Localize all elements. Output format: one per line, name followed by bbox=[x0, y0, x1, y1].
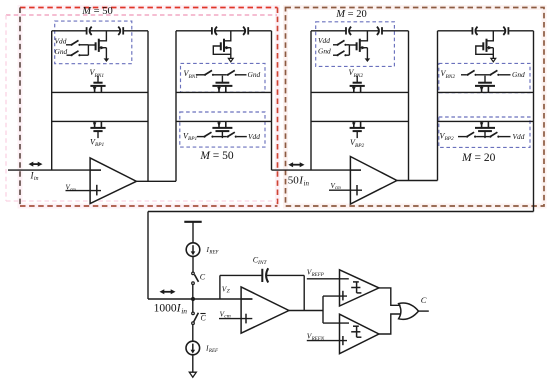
wire U1 Vcm lead and plus sign bbox=[66, 185, 102, 196]
svg-text:BN2: BN2 bbox=[353, 73, 363, 79]
label output C bbox=[421, 295, 427, 305]
capacitor C3a (col3 rail left) bbox=[346, 27, 351, 35]
transistor M7 (col3 cell NMOS) bbox=[349, 31, 370, 62]
wire col2 top rail bbox=[176, 30, 272, 32]
wire IREF2 to ground bbox=[192, 355, 194, 373]
plus sign U4 bbox=[342, 291, 344, 301]
wire col2 left vertical bbox=[175, 31, 177, 181]
svg-text:BP2: BP2 bbox=[444, 136, 454, 142]
switch S12 (Vdd select col4) bbox=[489, 132, 510, 138]
switch box B3 (col2 lower, blue dashed) bbox=[180, 112, 265, 147]
wire U1 minus lead inside bbox=[90, 169, 101, 171]
label VBP2 col3 bbox=[350, 138, 365, 149]
hysteresis icon U5 bbox=[351, 326, 361, 337]
svg-text:Gnd: Gnd bbox=[318, 47, 331, 56]
switch S1 (Vdd select, col1) bbox=[66, 40, 81, 46]
transistor M12 (VBP2-switched col4) bbox=[475, 121, 495, 138]
label Vcm U1 bbox=[66, 184, 77, 193]
wire OR output C bbox=[419, 310, 429, 312]
svg-text:C: C bbox=[201, 314, 207, 323]
svg-text:Gnd: Gnd bbox=[512, 70, 525, 79]
wire node to switch Cbar bbox=[192, 299, 194, 312]
label Vcm U2 bbox=[331, 182, 342, 191]
svg-text:BP2: BP2 bbox=[355, 143, 365, 149]
wire U1 output bbox=[136, 180, 176, 182]
svg-text:BN1: BN1 bbox=[94, 73, 104, 79]
svg-text:M = 20: M = 20 bbox=[335, 9, 366, 20]
svg-text:Vdd: Vdd bbox=[318, 36, 330, 45]
op-amp U1 (stage-1 amplifier) bbox=[90, 158, 136, 204]
wire U3 minus lead inside bbox=[241, 298, 252, 300]
transistor M11 (VBN2-switched col4) bbox=[475, 76, 495, 93]
svg-text:BN1: BN1 bbox=[188, 74, 198, 80]
capacitor CINT bbox=[262, 268, 268, 282]
capacitor C3b (col3 rail right) bbox=[377, 27, 382, 35]
svg-text:REFP: REFP bbox=[311, 273, 324, 278]
label switch Cbar bbox=[200, 314, 206, 323]
svg-text:Vdd: Vdd bbox=[55, 36, 67, 45]
switch S2 (Gnd select, col1) bbox=[67, 45, 89, 57]
label 50Iin bbox=[288, 175, 310, 188]
wire col3 top rail bbox=[311, 30, 409, 32]
transistor M8 (VBN2 cascode col3) bbox=[350, 76, 365, 93]
label switch C bbox=[200, 273, 206, 282]
svg-text:INT: INT bbox=[257, 260, 268, 266]
wire switch C to node bbox=[192, 285, 194, 299]
svg-text:C: C bbox=[421, 295, 427, 305]
transistor M9 (VBP2 col3) bbox=[350, 121, 365, 138]
wire VREFN lead to U5 plus input bbox=[307, 340, 347, 342]
label M=50 top bbox=[81, 6, 112, 17]
label VBN1 col2 bbox=[184, 69, 199, 80]
label VREFP bbox=[307, 268, 324, 278]
wire U2 output bbox=[397, 180, 438, 182]
transistor M10 (col4 diode-connected NMOS) bbox=[476, 31, 496, 62]
wire comparator input tap vertical bbox=[322, 296, 324, 323]
label M=20 top bbox=[335, 9, 366, 20]
node VZ junction dot bbox=[191, 297, 195, 301]
wire VREFP lead to U4 minus input bbox=[307, 278, 349, 280]
comparator U5 (lower, with hysteresis) bbox=[340, 314, 379, 354]
label Vdd col4 bbox=[513, 132, 525, 141]
wire col4 left vertical bbox=[437, 31, 439, 181]
wire switch Cbar to IREF2 bbox=[192, 324, 194, 341]
current source IREF1 bbox=[186, 243, 200, 257]
label M=50 bottom bbox=[199, 150, 234, 162]
label Vdd col3 bbox=[318, 36, 330, 45]
stage-1 inner boundary (pink dashed line) bbox=[6, 15, 277, 201]
svg-text:Gnd: Gnd bbox=[248, 70, 261, 79]
switch S5 (VBP1 select col2) bbox=[197, 132, 227, 138]
label CINT bbox=[253, 256, 268, 266]
wire col1 top rail bbox=[52, 30, 148, 32]
svg-text:Vdd: Vdd bbox=[513, 132, 525, 141]
label 1000Iin bbox=[154, 303, 188, 316]
op-amp U2 (stage-2 amplifier) bbox=[350, 157, 397, 205]
label VBN2 col3 bbox=[349, 68, 364, 79]
wire 50Iin line bbox=[272, 169, 362, 171]
label M=20 bottom bbox=[461, 152, 496, 164]
label IREF1 bbox=[206, 245, 220, 256]
OR gate U6 bbox=[399, 303, 419, 319]
wire U4 output to OR bbox=[379, 288, 401, 305]
label VREFN bbox=[307, 332, 325, 342]
wire col4 row2 bbox=[438, 120, 534, 122]
switch S3 (VBN1 select col2) bbox=[196, 70, 227, 76]
svg-text:1000: 1000 bbox=[154, 303, 177, 315]
capacitor C4a (col4 rail left) bbox=[472, 27, 477, 35]
wire col4 row1 bbox=[438, 91, 534, 93]
svg-text:cm: cm bbox=[335, 186, 341, 191]
label Gnd col2 bbox=[248, 70, 261, 79]
capacitor C1a (col1 rail left) bbox=[87, 27, 92, 35]
current source IREF2 bbox=[186, 341, 200, 355]
stage-2 boundary (brown dashed box) bbox=[286, 8, 545, 207]
switch box B4 (col3, blue dashed) bbox=[316, 22, 395, 67]
svg-text:cm: cm bbox=[224, 314, 230, 320]
svg-text:50: 50 bbox=[288, 175, 300, 187]
wire U2 minus lead inside bbox=[350, 169, 361, 171]
switch S8 (Gnd select col3) bbox=[333, 45, 349, 57]
wire U2 Vcm lead and plus sign bbox=[329, 185, 362, 195]
label VBN1 col1 bbox=[90, 68, 105, 79]
switch S10 (Gnd select col4) bbox=[489, 70, 510, 76]
capacitor C2b (col2 rail right) bbox=[243, 27, 248, 35]
wire col3 right vertical bbox=[408, 31, 410, 181]
transistor M1 (col1 cell NMOS) bbox=[88, 31, 109, 62]
switch box B1 (col1, blue dashed) bbox=[55, 21, 132, 64]
wire 1000Iin line to node bbox=[148, 298, 252, 300]
stage-1 boundary (red dashed box) bbox=[20, 8, 278, 207]
wire block1 row1 (VBN1 cascode row) bbox=[52, 91, 148, 93]
current arrow Iin bbox=[29, 162, 43, 167]
svg-text:in: in bbox=[181, 306, 187, 315]
wire block1 row2 (VBP1 row) bbox=[52, 120, 148, 122]
wire col2 row2 bbox=[176, 120, 272, 122]
svg-text:REF: REF bbox=[208, 349, 219, 354]
svg-text:M = 20: M = 20 bbox=[461, 152, 496, 164]
switch C (top) bbox=[192, 272, 199, 284]
wire to U4 plus input bbox=[323, 295, 347, 297]
svg-text:BP1: BP1 bbox=[95, 142, 105, 148]
halo glow under dashed boundaries bbox=[20, 8, 544, 207]
svg-text:M = 50: M = 50 bbox=[81, 6, 112, 17]
wire col1 left vertical bbox=[51, 31, 53, 170]
op-amp U3 (integrator) bbox=[241, 287, 289, 333]
switch S6 (Vdd select col2) bbox=[227, 132, 247, 138]
label Gnd col4 bbox=[512, 70, 525, 79]
svg-text:Gnd: Gnd bbox=[55, 47, 68, 56]
plus sign U5 bbox=[342, 336, 344, 345]
wire U3 Vcm lead and plus sign bbox=[219, 314, 252, 324]
wire long feed line from col4 to integrator branch bbox=[148, 211, 534, 213]
capacitor C2a (col2 rail left) bbox=[212, 27, 217, 35]
comparator U4 (upper, with hysteresis) bbox=[340, 270, 379, 306]
label Gnd col1 bbox=[55, 47, 68, 56]
switch box B6 (col4 lower, blue dashed) bbox=[439, 117, 530, 147]
label Vdd col2 bbox=[248, 132, 260, 141]
svg-text:cm: cm bbox=[70, 188, 76, 193]
capacitor C4b (col4 rail right) bbox=[503, 27, 508, 35]
transistor M3 (VBP1 col1) bbox=[90, 121, 105, 138]
wire block2 row2 bbox=[311, 120, 409, 122]
wire col4 right vertical bbox=[533, 31, 535, 212]
wire col3 left vertical bbox=[310, 31, 312, 170]
transistor M5 (VBN1-switched col2) bbox=[212, 76, 232, 93]
switch S9 (VBN2 select col4) bbox=[461, 70, 489, 76]
switch box B2 (col2 upper, blue dashed) bbox=[181, 63, 266, 92]
supply bar above IREF1 bbox=[184, 222, 201, 243]
switch S7 (Vdd select col3) bbox=[333, 40, 349, 46]
wire U3 output bbox=[289, 310, 323, 312]
wire col4 top rail bbox=[438, 30, 534, 32]
current arrow 50Iin bbox=[288, 162, 304, 167]
svg-text:BP1: BP1 bbox=[188, 136, 198, 142]
wire to U5 minus input bbox=[323, 322, 349, 324]
wire col1 right vertical bbox=[147, 31, 149, 181]
wire U5 output to OR bbox=[379, 314, 401, 334]
wire Iin input line bbox=[8, 169, 101, 171]
transistor M4 (col2 diode-connected NMOS) bbox=[213, 31, 233, 62]
label Vcm U3 bbox=[220, 309, 231, 319]
svg-text:in: in bbox=[304, 179, 310, 187]
wire IREF1 to switch C bbox=[192, 256, 194, 272]
label VBP1 col1 bbox=[90, 137, 105, 148]
svg-text:BN2: BN2 bbox=[445, 74, 455, 80]
wire vertical down to 1000Iin node bbox=[147, 212, 149, 300]
capacitor C1b (col1 rail right) bbox=[118, 27, 123, 35]
switch S11 (VBP2 select col4) bbox=[458, 132, 489, 138]
label VBP1 col2 bbox=[183, 131, 198, 142]
ground (arrow symbol) bbox=[189, 372, 196, 377]
transistor M6 (VBP1-switched col2) bbox=[212, 121, 232, 138]
svg-text:in: in bbox=[34, 176, 39, 182]
switch S4 (Gnd select col2) bbox=[227, 70, 247, 76]
wire col2 right vertical bbox=[271, 31, 273, 170]
label Gnd col3 bbox=[318, 47, 331, 56]
label IREF2 bbox=[205, 343, 219, 354]
label Iin bbox=[30, 171, 39, 183]
wire feedback down to output bbox=[303, 275, 305, 310]
label VZ bbox=[222, 284, 231, 294]
wire col2 row1 bbox=[176, 91, 272, 93]
wire block2 row1 bbox=[311, 91, 409, 93]
label VBN2 col4 bbox=[441, 69, 456, 80]
hysteresis icon U4 bbox=[351, 282, 361, 293]
svg-text:REF: REF bbox=[208, 251, 219, 256]
wire integrator feedback top bbox=[220, 274, 304, 276]
current arrow 1000Iin bbox=[160, 289, 176, 294]
svg-text:Vdd: Vdd bbox=[248, 132, 260, 141]
wire VZ feedback tap vertical bbox=[219, 275, 221, 299]
svg-text:C: C bbox=[200, 273, 206, 282]
switch Cbar (bottom) bbox=[192, 312, 199, 324]
label Vdd col1 bbox=[55, 36, 67, 45]
svg-text:REFN: REFN bbox=[311, 337, 325, 342]
svg-text:M = 50: M = 50 bbox=[199, 150, 234, 162]
switch box B5 (col4 upper, blue dashed) bbox=[439, 63, 530, 92]
transistor M2 (VBN1 cascode col1) bbox=[90, 76, 105, 93]
label VBP2 col4 bbox=[440, 131, 455, 142]
